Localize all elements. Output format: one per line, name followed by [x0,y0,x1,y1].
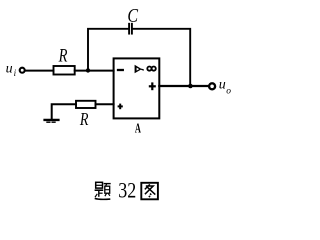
resistor R1 [54,66,75,75]
op-amp triangle symbol [135,65,142,74]
svg-text:R: R [79,110,89,129]
caption hanzi ti (题) [95,182,111,199]
wire R2 to ground [52,104,76,119]
caption hanzi tu (图) [141,183,158,200]
wire capacitor to output node [133,29,190,86]
wire R1 to op-amp inverting input [75,70,114,72]
op-amp minus input sign [118,69,123,71]
svg-text:C: C [127,4,139,26]
node junction at output [188,84,193,89]
svg-text:32: 32 [118,179,136,203]
resistor R2 [76,101,96,108]
svg-text:R: R [58,45,68,66]
svg-text:u: u [219,77,226,92]
svg-text:u: u [6,61,13,76]
op-amp A body [114,58,160,118]
svg-text:o: o [226,87,231,97]
op-amp output plus sign [150,84,155,90]
input terminal ui [20,68,25,73]
op-amp non-inverting input marker [119,105,122,109]
triangle apex smudge [142,68,143,71]
label uo [219,77,232,96]
ground hatch ticks [47,121,50,123]
ground [45,119,59,121]
output wire [159,85,209,87]
op-amp infinity symbol [147,67,156,71]
svg-text:i: i [14,68,17,78]
output terminal uo [209,83,215,89]
wire feedback riser [88,29,128,71]
label ui [6,61,17,78]
capacitor C [128,24,130,34]
wire op-amp non-inverting to R2 [96,103,114,105]
svg-text:A: A [135,122,142,136]
node junction at inverting input [86,68,90,72]
wire input to R1 [25,70,53,72]
